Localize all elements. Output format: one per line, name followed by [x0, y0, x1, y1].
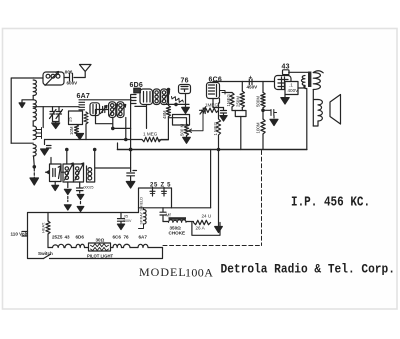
svg-text:1 MEG: 1 MEG — [213, 121, 218, 135]
antenna coil secondary L1a — [33, 80, 36, 96]
svg-text:76: 76 — [181, 78, 189, 85]
ground arrow 6A7 — [76, 134, 84, 140]
antenna — [74, 65, 91, 78]
coil L3 — [33, 145, 36, 157]
grid leak box R1 — [69, 111, 83, 125]
svg-text:6C6: 6C6 — [209, 77, 222, 84]
wire stub left — [42, 107, 44, 128]
svg-text:10M: 10M — [69, 126, 74, 135]
filter choke 350ohm — [169, 217, 187, 220]
diode load box — [173, 115, 190, 126]
tube 6D6 body — [130, 95, 132, 128]
coupling cap box — [232, 107, 242, 111]
svg-text:500 M: 500 M — [180, 123, 185, 136]
pilot light box — [89, 243, 111, 251]
capacitor .006 — [65, 74, 73, 82]
plate wire 6A7 to T2 — [96, 110, 100, 118]
svg-text:6D6: 6D6 — [76, 235, 85, 240]
svg-text:26 A: 26 A — [196, 226, 206, 231]
gang link arrows — [67, 182, 69, 188]
output transformer T4 primary — [301, 76, 305, 86]
T4 core — [308, 72, 311, 88]
svg-text:PILOT LIGHT: PILOT LIGHT — [87, 254, 113, 259]
feed arrows from rail — [210, 150, 212, 208]
wiper wire — [189, 110, 204, 132]
plate wire to output transformer — [298, 86, 304, 89]
wire to volume control — [168, 118, 186, 124]
svg-text:450V: 450V — [247, 85, 259, 90]
resistor 1MEG grid — [202, 108, 219, 112]
svg-text:600V: 600V — [67, 81, 79, 86]
antenna coil T1 primary — [43, 72, 64, 85]
IF transformer T3 primary box — [153, 89, 160, 105]
svg-text:48M: 48M — [162, 110, 167, 119]
tube 6A7 body — [90, 103, 100, 116]
ground + cap on AVC line — [45, 140, 52, 149]
43 grid cap box — [283, 70, 290, 75]
vertical from T2 area to rail — [130, 128, 132, 171]
svg-text:CHOKE: CHOKE — [169, 231, 186, 236]
plate rail 6C6 to 43 — [213, 81, 275, 83]
B+ output line — [139, 207, 211, 209]
svg-text:25Z5: 25Z5 — [52, 235, 63, 240]
electrolytic + 450V — [249, 79, 252, 85]
6D6 grid cap — [134, 88, 141, 93]
resistor R2 — [75, 125, 79, 136]
svg-text:6D6: 6D6 — [130, 82, 143, 89]
line bypass cap .05 — [118, 213, 125, 224]
tube 76 body — [179, 85, 191, 94]
ground (43 cathode) — [284, 95, 286, 98]
svg-text:25: 25 — [68, 117, 73, 122]
heater string — [48, 247, 53, 249]
T2 screen lead — [125, 118, 127, 140]
padder cap bottom — [77, 182, 84, 193]
power box outline — [28, 213, 163, 259]
svg-text:25 Z 5: 25 Z 5 — [150, 183, 171, 189]
cap + ground at 6C6 grid — [221, 108, 227, 116]
svg-text:I.P. 456 KC.: I.P. 456 KC. — [291, 195, 370, 210]
T2 secondary box — [117, 102, 124, 118]
svg-text:+: + — [249, 75, 253, 81]
svg-text:6A7: 6A7 — [139, 235, 148, 240]
svg-text:1 MEG: 1 MEG — [143, 132, 158, 137]
T4 secondary — [313, 71, 323, 73]
svg-text:6C6: 6C6 — [113, 235, 122, 240]
tickler winding bars — [37, 128, 42, 139]
junction to cap — [263, 108, 271, 119]
filter cap 8Mf — [160, 208, 166, 222]
speaker — [330, 95, 341, 125]
detector wire — [166, 103, 189, 105]
resistor 26ohm box — [194, 220, 211, 224]
resistor 48M — [158, 104, 171, 139]
osc coil top connections — [67, 150, 131, 169]
svg-text:500M: 500M — [256, 96, 261, 107]
svg-text:.05: .05 — [123, 215, 128, 219]
svg-text:MODEL: MODEL — [139, 265, 187, 279]
volume control 500M — [184, 124, 188, 136]
resistor 1MEG plate — [225, 92, 232, 94]
svg-text:400V: 400V — [288, 88, 300, 93]
svg-text:100M: 100M — [256, 122, 261, 133]
grid cap plate wire — [289, 71, 308, 73]
top grid wire — [85, 99, 132, 101]
IF transformer T2 primary box — [109, 102, 116, 118]
tube 43 — [275, 76, 292, 90]
25Z5 cathode ladder — [144, 208, 147, 224]
T3 secondary box — [161, 89, 168, 105]
svg-text:250M: 250M — [236, 96, 241, 107]
B+ rail — [118, 149, 307, 151]
svg-text:43: 43 — [282, 64, 290, 71]
padder capacitor box — [50, 164, 62, 182]
wire to left bus — [11, 78, 33, 143]
svg-text:30Ω: 30Ω — [96, 238, 105, 243]
grid wire 6A7 — [33, 106, 79, 108]
6D6 cathode wire — [135, 105, 147, 129]
voice coil — [313, 90, 318, 127]
ground tap (antenna coil) — [22, 96, 33, 104]
oscillator coil box B — [74, 164, 84, 182]
T2 bottom wiring — [96, 118, 131, 129]
svg-text:HEAT.: HEAT. — [41, 222, 46, 233]
resistor 500M — [262, 82, 264, 93]
heater dropping resistor — [47, 213, 49, 222]
oscillator coil box A — [63, 164, 74, 182]
tube 6A7 grid stack — [79, 100, 85, 110]
svg-text:Detrola Radio & Tel. Corp.: Detrola Radio & Tel. Corp. — [221, 262, 395, 277]
oscillator grid capacitor C4 — [100, 106, 109, 114]
tuning link (dashed with arrow) — [33, 156, 36, 167]
svg-text:110 Volt: 110 Volt — [11, 232, 28, 237]
chassis dashed boundary — [261, 151, 263, 246]
25Z5 envelope — [139, 188, 172, 213]
svg-text:Switch: Switch — [38, 251, 53, 256]
trimmer capacitor C3 — [56, 107, 63, 122]
svg-text:.006: .006 — [64, 70, 73, 75]
bypass capacitor C8 — [127, 171, 137, 182]
svg-text:.1: .1 — [289, 83, 293, 88]
svg-text:Mf: Mf — [166, 213, 172, 218]
cathode resistor R3 — [84, 112, 88, 140]
tube 25Z5 plates — [150, 188, 167, 197]
line plug — [22, 232, 28, 237]
svg-text:400V: 400V — [123, 219, 132, 223]
resistor 1 MEG vertical — [216, 110, 220, 149]
AVC line — [45, 139, 143, 141]
ground (C8) — [126, 182, 135, 189]
svg-text:.00025: .00025 — [83, 186, 94, 190]
ground (trimmers) — [53, 122, 60, 124]
43 coupling box .1 400V — [285, 82, 298, 95]
wire junction left — [11, 142, 33, 144]
resistor 100M — [261, 119, 265, 134]
capacitor + ground right — [271, 110, 277, 119]
cathode bits — [220, 91, 229, 95]
ground (padder) — [54, 182, 56, 187]
svg-text:1MEG: 1MEG — [226, 93, 231, 106]
oscillator coupling coil L2 — [33, 126, 36, 140]
diode arrow 76 — [185, 94, 187, 108]
switch — [44, 255, 51, 259]
svg-text:100A: 100A — [185, 266, 213, 280]
resistor 250M — [241, 82, 243, 92]
rail junctions — [129, 148, 132, 151]
svg-text:24 U: 24 U — [202, 214, 212, 219]
svg-text:1MEG: 1MEG — [205, 103, 218, 108]
capacitor C10 — [200, 107, 206, 114]
wire T3 to detector — [167, 90, 168, 105]
svg-text:6A7: 6A7 — [77, 93, 90, 100]
tube 6C6 — [207, 83, 220, 99]
antenna coil secondary L1b — [33, 100, 36, 121]
svg-text:43: 43 — [65, 235, 71, 240]
trimmer capacitor C2 — [50, 107, 57, 122]
svg-text:76: 76 — [124, 235, 130, 240]
resistor 1 MEG horizontal — [142, 137, 161, 142]
svg-text:SPRAY SHIELD: SPRAY SHIELD — [139, 197, 143, 225]
coupling resistor diagonal — [171, 95, 184, 104]
primary lead down to rail — [305, 86, 307, 150]
oscillator coil C — [87, 166, 95, 182]
